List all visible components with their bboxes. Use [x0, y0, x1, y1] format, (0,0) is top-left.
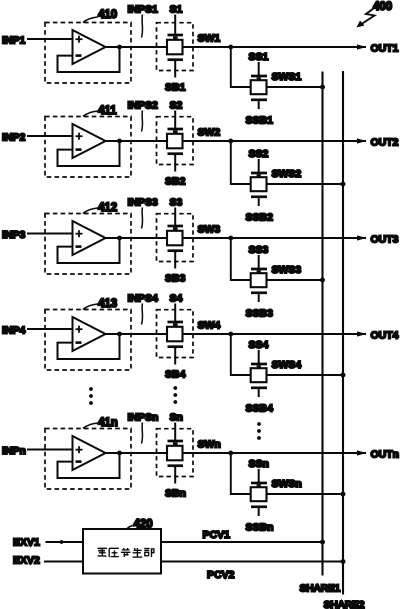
leader line for 41n	[83, 423, 98, 429]
switch SWS1 bottom gate lead SSB1	[258, 101, 260, 109]
svg-text:INPS4: INPS4	[128, 293, 159, 305]
switch SWS2 top gate lead SS2	[258, 159, 260, 172]
svg-text:OUT3: OUT3	[371, 234, 399, 246]
switch SWn bottom gate lead SBn	[174, 467, 176, 484]
switch SWS4 body	[251, 368, 267, 382]
wire INPn to op-amp + input	[27, 449, 74, 451]
svg-text:OUTn: OUTn	[371, 449, 400, 461]
svg-text:41n: 41n	[98, 417, 118, 429]
wire output row 1 (to OUT1)	[106, 46, 367, 48]
wire INP3 to op-amp + input	[27, 233, 74, 235]
switch SWS3 top gate lead SS3	[258, 255, 260, 268]
leader line INPS2	[142, 111, 143, 132]
node junction row n to SWSn	[228, 451, 233, 456]
node op-amp 412 output junction	[117, 236, 122, 241]
svg-text:SS4: SS4	[249, 339, 269, 351]
svg-text:SW3: SW3	[198, 224, 221, 236]
svg-text:INP3: INP3	[2, 229, 26, 241]
switch SWn dashed outline	[157, 429, 194, 477]
switch SWSn bottom gate lead SSBn	[258, 508, 260, 516]
switch SWS2 top gate bar	[251, 172, 267, 175]
switch SWS4 bottom gate bar	[251, 386, 267, 389]
svg-text:SB1: SB1	[165, 82, 186, 94]
node op-amp 411 output junction	[117, 139, 122, 144]
svg-text:SW4: SW4	[198, 320, 221, 332]
switch SW1 top gate lead S1	[174, 15, 176, 35]
svg-text:SB2: SB2	[165, 176, 186, 188]
svg-text:SWS3: SWS3	[272, 264, 302, 276]
svg-text:SHARE2: SHARE2	[324, 599, 365, 609]
op-amp 411 triangle	[73, 124, 106, 158]
node PCV1 to SHARE1	[320, 540, 325, 545]
wire SHARE1 bus (left vertical)	[321, 72, 323, 576]
svg-text:SB4: SB4	[165, 369, 186, 381]
svg-text:INPSn: INPSn	[128, 412, 159, 424]
ellipsis dots switch SWS column	[257, 422, 261, 426]
switch SWS4 top gate lead SS4	[258, 350, 260, 363]
op-amp block 413 dashed outline	[45, 310, 131, 371]
switch SW3 top gate bar	[168, 225, 184, 228]
switch SWS2 bottom gate bar	[251, 195, 267, 198]
leader line for 413	[83, 304, 98, 310]
wire OUT4 line down to SWS4	[231, 334, 343, 375]
svg-text:SS1: SS1	[249, 51, 269, 63]
switch SW2 body	[167, 134, 183, 149]
svg-text:SS3: SS3	[249, 244, 269, 256]
svg-text:SWS4: SWS4	[272, 359, 302, 371]
wire feedback loop 412	[58, 238, 120, 263]
node on EXV1 wire	[60, 540, 64, 544]
op-amp 412 + input mark	[76, 233, 83, 235]
svg-text:SS2: SS2	[249, 148, 269, 160]
switch SWSn top gate bar	[251, 482, 267, 485]
arrowhead OUT4	[357, 331, 367, 336]
svg-text:SWS1: SWS1	[272, 71, 302, 83]
switch SW4 bottom gate bar	[168, 345, 184, 348]
op-amp 410 - input mark	[76, 54, 82, 57]
wire output row n (to OUTn)	[106, 452, 367, 454]
leader line INPS3	[142, 208, 143, 229]
wire INP4 to op-amp + input	[27, 328, 74, 330]
wire OUT3 line down to SWS3	[231, 238, 323, 280]
node op-amp 413 output junction	[117, 332, 122, 337]
leader line for 411	[83, 111, 98, 117]
switch SW1 top gate bar	[168, 34, 184, 37]
wire feedback loop 413	[58, 334, 120, 359]
wire output row 2 (to OUT2)	[106, 140, 367, 142]
svg-text:SSBn: SSBn	[246, 522, 274, 534]
switch SWn top gate bar	[168, 440, 184, 443]
wire INP2 to op-amp + input	[27, 135, 74, 137]
wire feedback loop 410	[58, 47, 120, 72]
leader line INPS4	[142, 304, 143, 325]
svg-text:410: 410	[98, 9, 117, 21]
svg-text:S2: S2	[170, 100, 183, 112]
switch SW4 top gate lead S4	[174, 304, 176, 322]
wire feedback loop 411	[58, 141, 120, 166]
op-amp block 412 dashed outline	[45, 214, 131, 275]
svg-text:INPS1: INPS1	[128, 4, 159, 16]
leader line INPS1	[142, 15, 143, 38]
block 420 text (CJK)	[98, 548, 154, 557]
switch SW2 bottom gate bar	[168, 152, 184, 155]
svg-text:INP4: INP4	[2, 325, 26, 337]
switch SWn bottom gate bar	[168, 464, 184, 467]
node junction row 4 to SWS4	[228, 332, 233, 337]
switch SWSn bottom gate bar	[251, 505, 267, 508]
svg-text:OUT2: OUT2	[371, 137, 399, 149]
svg-text:PCV2: PCV2	[207, 569, 235, 581]
switch SWSn body	[251, 487, 267, 501]
svg-text:S1: S1	[170, 4, 183, 16]
svg-text:SSB2: SSB2	[246, 212, 274, 224]
svg-text:S4: S4	[170, 293, 183, 305]
svg-text:SWSn: SWSn	[272, 478, 302, 490]
svg-text:SSB1: SSB1	[246, 115, 274, 127]
wire EXV2	[44, 561, 83, 563]
svg-text:S3: S3	[170, 197, 183, 209]
switch SWS1 top gate bar	[251, 75, 267, 78]
node junction row 1 to SWS1	[228, 45, 233, 50]
node SWSn to share bus	[341, 492, 346, 497]
wire OUTn line down to SWSn	[231, 453, 343, 494]
svg-text:412: 412	[98, 202, 117, 214]
arrowhead OUT2	[357, 138, 367, 143]
wire OUT1 line down to SWS1	[231, 47, 323, 87]
svg-text:SSB3: SSB3	[246, 308, 274, 320]
svg-text:SWn: SWn	[198, 439, 221, 451]
wire PCV2 to SHARE2 bus	[161, 561, 343, 563]
switch SWSn top gate lead SSn	[258, 469, 260, 482]
svg-text:SWS2: SWS2	[272, 168, 302, 180]
ellipsis dots op-amp column	[89, 387, 93, 391]
svg-text:413: 413	[98, 298, 117, 310]
switch SWS2 bottom gate lead SSB2	[258, 198, 260, 206]
switch SW2 top gate bar	[168, 128, 184, 131]
leader line for 420	[127, 526, 133, 530]
node PCV2 to SHARE2	[341, 559, 346, 564]
svg-text:SB3: SB3	[165, 273, 186, 285]
op-amp 41n - input mark	[76, 460, 82, 463]
leader line INPSn	[142, 423, 143, 444]
switch SW2 bottom gate lead SB2	[174, 155, 176, 172]
switch SWS3 top gate bar	[251, 268, 267, 271]
node SWS1 to share bus	[320, 85, 325, 90]
switch SWS4 top gate bar	[251, 363, 267, 366]
svg-text:EXV2: EXV2	[13, 555, 40, 567]
wire OUT2 line down to SWS2	[231, 141, 343, 184]
op-amp 412 triangle	[73, 221, 106, 255]
switch SW1 bottom gate bar	[168, 58, 184, 61]
wire feedback loop 41n	[58, 453, 120, 478]
switch SWS1 bottom gate bar	[251, 98, 267, 101]
leader zigzag arrow for 400	[362, 7, 377, 25]
op-amp block 41n dashed outline	[45, 429, 131, 490]
switch SWS3 body	[251, 273, 267, 287]
op-amp 412 - input mark	[76, 245, 82, 248]
wire output row 4 (to OUT4)	[106, 333, 367, 335]
svg-text:OUT1: OUT1	[371, 43, 399, 55]
wire SHARE2 bus (right vertical)	[342, 71, 344, 595]
svg-text:OUT4: OUT4	[371, 330, 399, 342]
leader line for 412	[83, 208, 98, 214]
svg-text:420: 420	[134, 519, 153, 531]
svg-text:SHARE1: SHARE1	[300, 583, 341, 595]
switch SWS2 body	[251, 177, 267, 191]
ellipsis dots switch SW column	[173, 386, 177, 390]
leader line for 410	[83, 17, 98, 23]
svg-text:EXV1: EXV1	[13, 537, 40, 549]
switch SW4 bottom gate lead SB4	[174, 348, 176, 365]
switch SW1 body	[167, 40, 183, 55]
switch SW3 dashed outline	[157, 214, 194, 262]
svg-text:INP1: INP1	[2, 35, 26, 47]
svg-text:SW2: SW2	[198, 127, 221, 139]
switch SWn body	[167, 446, 183, 461]
arrowhead OUTn	[357, 450, 367, 455]
wire EXV1	[46, 541, 84, 543]
switch SW4 body	[167, 327, 183, 342]
svg-text:PCV1: PCV1	[203, 529, 231, 541]
wire INP1 to op-amp + input	[27, 38, 74, 40]
switch SWS3 bottom gate bar	[251, 291, 267, 294]
op-amp block 410 dashed outline	[45, 23, 131, 84]
switch SW1 bottom gate lead SB1	[174, 61, 176, 78]
node SWS3 to share bus	[320, 278, 325, 283]
op-amp 41n triangle	[73, 436, 106, 470]
switch SW3 bottom gate bar	[168, 249, 184, 252]
svg-text:SW1: SW1	[198, 33, 221, 45]
op-amp 413 triangle	[73, 317, 106, 351]
switch SW3 body	[167, 231, 183, 246]
switch SW4 top gate bar	[168, 321, 184, 324]
svg-text:INPS2: INPS2	[128, 100, 159, 112]
svg-text:411: 411	[98, 105, 117, 117]
svg-text:INPn: INPn	[2, 445, 26, 457]
node junction row 2 to SWS2	[228, 139, 233, 144]
switch SW4 dashed outline	[157, 310, 194, 358]
switch SWS4 bottom gate lead SSB4	[258, 389, 260, 397]
node junction row 3 to SWS3	[228, 236, 233, 241]
wire PCV1 to SHARE1 bus	[161, 541, 323, 543]
switch SW3 top gate lead S3	[174, 208, 176, 226]
switch SW3 bottom gate lead SB3	[174, 252, 176, 269]
op-amp 410 triangle	[73, 30, 106, 64]
svg-text:SSB4: SSB4	[246, 403, 274, 415]
wire output row 3 (to OUT3)	[106, 237, 367, 239]
switch SW1 dashed outline	[157, 23, 194, 71]
svg-text:SSn: SSn	[249, 458, 269, 470]
voltage generator block 420	[83, 529, 161, 574]
node op-amp 410 output junction	[117, 45, 122, 50]
op-amp 411 + input mark	[76, 135, 83, 137]
switch SWS3 bottom gate lead SSB3	[258, 294, 260, 302]
op-amp 410 + input mark	[76, 38, 83, 40]
svg-text:SBn: SBn	[165, 488, 186, 500]
svg-text:INP2: INP2	[2, 132, 26, 144]
switch SWn top gate lead Sn	[174, 423, 176, 441]
op-amp block 411 dashed outline	[45, 117, 131, 178]
arrowhead OUT1	[357, 44, 367, 49]
svg-text:Sn: Sn	[170, 412, 183, 424]
switch SWS1 body	[251, 80, 267, 94]
switch SW2 dashed outline	[157, 117, 194, 165]
node SWS2 to share bus	[341, 182, 346, 187]
switch SWS1 top gate lead SS1	[258, 62, 260, 75]
op-amp 411 - input mark	[76, 148, 82, 151]
switch SW2 top gate lead S2	[174, 111, 176, 129]
svg-text:INPS3: INPS3	[128, 197, 159, 209]
op-amp 413 + input mark	[76, 328, 83, 330]
arrowhead OUT3	[357, 235, 367, 240]
op-amp 413 - input mark	[76, 341, 82, 344]
node SWS4 to share bus	[341, 373, 346, 378]
node op-amp 41n output junction	[117, 451, 122, 456]
op-amp 41n + input mark	[76, 449, 83, 451]
